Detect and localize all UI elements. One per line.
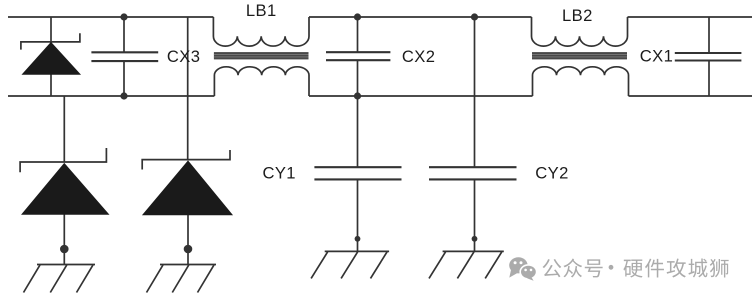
svg-text:CX3: CX3 [167,47,200,66]
svg-text:CX2: CX2 [402,47,435,66]
svg-text:CY1: CY1 [262,163,295,182]
svg-text:LB1: LB1 [246,1,277,20]
svg-text:CX1: CX1 [640,46,673,65]
svg-text:LB2: LB2 [562,6,593,25]
svg-text:CY2: CY2 [535,163,568,182]
